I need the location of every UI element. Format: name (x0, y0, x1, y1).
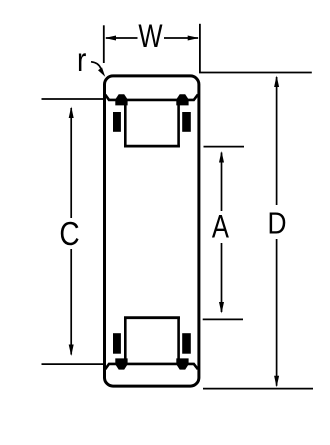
label W (138, 19, 163, 54)
D extension line top (199, 72, 312, 74)
label r (77, 42, 86, 79)
bottom cage box (left wall, right wall, top line) (124, 317, 180, 364)
bottom-right needle roller (182, 333, 191, 354)
A extension line top (204, 146, 245, 148)
C extension line top (42, 98, 104, 100)
bottom-left roller end dome (115, 358, 127, 369)
top-right needle roller (182, 112, 191, 132)
top-left roller end dome (115, 94, 127, 105)
svg-text:W: W (138, 19, 163, 54)
C extension line bottom (42, 363, 104, 365)
W dimension line right segment with right arrowhead (164, 36, 199, 41)
C dimension line upper segment with up arrowhead (69, 107, 74, 219)
top lip line with chamfers (105, 95, 198, 100)
W extension line right (199, 24, 201, 72)
outer cup (bearing outer shell, rounded rectangle) (105, 76, 199, 386)
label C (59, 216, 79, 253)
svg-text:r: r (77, 42, 86, 79)
A extension line bottom (203, 318, 243, 320)
top cage box (left wall, right wall, bottom line) (124, 101, 180, 148)
r leader arc with arrowhead pointing to corner radius (91, 62, 105, 77)
svg-text:A: A (212, 210, 230, 245)
D extension line bottom (203, 388, 313, 390)
A dimension line upper segment with up arrowhead (219, 151, 224, 211)
top-left needle roller (113, 112, 121, 132)
A dimension line lower segment with down arrowhead (219, 243, 224, 314)
bottom-right roller end dome (176, 358, 188, 369)
bottom-left needle roller (113, 333, 121, 354)
C dimension line lower segment with down arrowhead (69, 249, 74, 356)
svg-text:D: D (268, 207, 287, 241)
label A (212, 210, 230, 245)
D dimension line upper segment with up arrowhead (274, 76, 279, 206)
label D (268, 207, 287, 241)
bottom lip line with chamfers (105, 364, 198, 369)
D dimension line lower segment with down arrowhead (274, 239, 279, 387)
top-right roller end dome (176, 94, 188, 105)
W extension line left (103, 25, 105, 63)
svg-text:C: C (59, 216, 79, 253)
W dimension line left segment with left arrowhead (105, 36, 138, 41)
